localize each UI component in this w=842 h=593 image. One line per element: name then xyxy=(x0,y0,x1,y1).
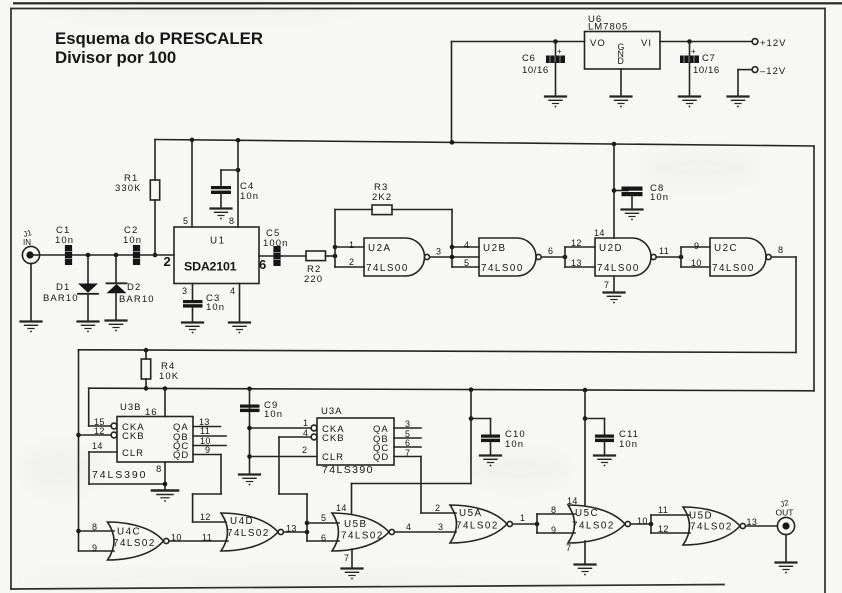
gate U2B 74LS00 NAND xyxy=(479,238,541,276)
svg-text:10n: 10n xyxy=(123,235,142,246)
wire +5V line lower section xyxy=(89,386,814,392)
svg-text:U4D: U4D xyxy=(230,516,254,527)
svg-text:QD: QD xyxy=(373,452,389,463)
capacitor C8 10n xyxy=(614,183,669,209)
svg-text:BAR10: BAR10 xyxy=(119,294,155,305)
wire input rail to U4C and CKB xyxy=(76,350,81,551)
svg-text:5: 5 xyxy=(464,258,469,268)
svg-text:U2B: U2B xyxy=(483,243,507,254)
svg-text:CLR: CLR xyxy=(122,448,144,459)
svg-text:10n: 10n xyxy=(619,439,638,450)
svg-text:74LS02: 74LS02 xyxy=(341,531,384,542)
wire VCC drop to U5C pin 14 xyxy=(583,390,588,505)
svg-text:4: 4 xyxy=(406,522,411,532)
counter U3B 74LS390 xyxy=(92,402,193,481)
wire U5A out to U5C xyxy=(512,513,539,533)
wire U5C out to U5D xyxy=(630,515,653,533)
wire U3B pin 8 GND xyxy=(163,462,168,490)
gate U5C 74LS02 NOR xyxy=(568,505,630,543)
svg-text:6: 6 xyxy=(321,533,326,543)
svg-text:BAR10: BAR10 xyxy=(43,293,79,304)
wire U3B QC stub pin 10 xyxy=(193,436,226,446)
svg-text:9: 9 xyxy=(92,543,97,553)
wire U4C pin 9 xyxy=(79,543,115,553)
wire U2A pin 1 xyxy=(335,240,364,250)
ground under U5C xyxy=(575,565,596,576)
svg-text:14: 14 xyxy=(594,228,605,238)
svg-text:4: 4 xyxy=(464,240,469,250)
svg-text:9: 9 xyxy=(205,445,210,455)
svg-text:2K2: 2K2 xyxy=(372,192,392,203)
svg-text:10n: 10n xyxy=(264,409,283,420)
ground under C6 xyxy=(545,97,566,108)
svg-text:U1: U1 xyxy=(210,236,226,247)
svg-text:10: 10 xyxy=(691,258,702,268)
svg-text:10K: 10K xyxy=(159,371,179,382)
wire U3A QD pin 7 to U5A xyxy=(394,448,456,513)
wire U5B pin 5 xyxy=(307,513,339,523)
svg-text:OUT: OUT xyxy=(776,508,794,518)
node U2A input xyxy=(333,210,338,268)
svg-text:3: 3 xyxy=(405,419,410,429)
ground under U2D xyxy=(604,293,625,304)
wire U1 pin 4 to ground xyxy=(230,284,240,323)
svg-text:3: 3 xyxy=(182,286,187,296)
svg-text:6: 6 xyxy=(405,438,410,448)
diode D1 BAR10 xyxy=(43,255,98,321)
ground under U5B xyxy=(342,569,363,580)
svg-text:12: 12 xyxy=(200,512,211,522)
svg-text:74LS02: 74LS02 xyxy=(456,521,499,532)
svg-text:3: 3 xyxy=(436,247,441,257)
svg-text:CKB: CKB xyxy=(122,431,145,442)
ground under D1 xyxy=(78,322,99,333)
svg-text:10: 10 xyxy=(637,516,648,526)
wire -12V to ground xyxy=(738,70,752,96)
svg-text:10n: 10n xyxy=(206,302,225,313)
svg-text:U2D: U2D xyxy=(599,243,623,254)
svg-text:2: 2 xyxy=(302,445,307,455)
wire U5B out to U5A pin 3 xyxy=(394,522,456,532)
svg-text:1: 1 xyxy=(520,513,525,523)
wire U2D pin 12 xyxy=(565,238,595,248)
svg-text:4: 4 xyxy=(230,286,235,296)
svg-text:10: 10 xyxy=(171,533,182,543)
svg-text:11: 11 xyxy=(658,505,668,515)
ground under D2 xyxy=(106,321,127,332)
wire bus right side down to counter supply xyxy=(813,146,815,391)
connector J1 IN xyxy=(22,228,39,264)
wire U2B pin 4 xyxy=(452,240,479,250)
svg-text:U2C: U2C xyxy=(714,243,738,254)
svg-text:+: + xyxy=(557,47,562,56)
U6 GND pin wire xyxy=(620,69,622,96)
wire U3A CKA pin 1 xyxy=(250,418,312,428)
resistor R3 2K2 feedback xyxy=(335,182,452,267)
svg-text:14: 14 xyxy=(92,441,103,451)
svg-text:LM7805: LM7805 xyxy=(588,22,628,33)
connector J2 OUT xyxy=(776,498,795,535)
svg-text:U3A: U3A xyxy=(321,406,342,417)
wire J1 ground xyxy=(30,264,32,321)
wire U3B QA stub pin 13 xyxy=(193,417,221,427)
svg-text:U5C: U5C xyxy=(575,508,599,519)
svg-text:9: 9 xyxy=(694,241,699,251)
wire U2D out to U2C xyxy=(656,246,683,267)
wire U3A QA stub pin 3 xyxy=(394,419,421,429)
wire U3B QB stub pin 11 xyxy=(193,426,226,436)
wire U5B pin 6 xyxy=(307,533,339,543)
wire U3B CKB pin 12 xyxy=(79,426,112,436)
ground under C7 xyxy=(679,97,700,108)
svg-text:IN: IN xyxy=(23,238,31,247)
svg-text:+: + xyxy=(691,47,696,56)
svg-text:74LS02: 74LS02 xyxy=(227,528,270,539)
wire U3A QB stub pin 5 xyxy=(394,429,421,439)
wire U3B CKA pin 15 xyxy=(89,388,111,427)
gate U5B 74LS02 NOR xyxy=(332,513,394,551)
wire U1 pin 5 to bus xyxy=(183,140,192,227)
svg-text:1: 1 xyxy=(303,418,308,428)
ground under C3 xyxy=(182,323,203,334)
svg-text:10/16: 10/16 xyxy=(522,65,549,76)
capacitor C1 10n xyxy=(55,225,74,265)
svg-text:2: 2 xyxy=(164,254,171,269)
wire VCC drop to U5B pin 14 xyxy=(352,390,474,513)
svg-text:220: 220 xyxy=(304,274,323,285)
ground under C11 xyxy=(594,456,615,467)
resistor R2 220 xyxy=(304,251,335,285)
svg-text:4: 4 xyxy=(303,428,308,438)
diode D2 BAR10 xyxy=(107,255,155,320)
wire U5C pin 8 xyxy=(537,505,575,515)
wire U2D pin 14 VCC xyxy=(594,144,616,238)
svg-text:10n: 10n xyxy=(505,439,524,450)
svg-text:10/16: 10/16 xyxy=(693,65,720,76)
svg-text:7: 7 xyxy=(344,553,349,563)
wire U4D out to U5B xyxy=(283,521,309,541)
wire VO output to +5V rail xyxy=(452,39,585,142)
wire U2C pin 8 out down to divider xyxy=(79,245,797,353)
wire U5D pin 12 xyxy=(651,524,690,534)
svg-text:74LS00: 74LS00 xyxy=(366,263,409,274)
terminal +12V xyxy=(752,38,786,49)
svg-text:QD: QD xyxy=(173,450,189,461)
ground under C9 xyxy=(239,475,260,486)
wire U3A CLR pin 2 xyxy=(250,445,317,457)
capacitor C5 100n xyxy=(263,228,289,266)
ground under U6 xyxy=(611,97,632,108)
svg-text:C7: C7 xyxy=(702,53,715,64)
gate U4C 74LS02 NOR xyxy=(108,522,169,560)
svg-text:2: 2 xyxy=(349,257,354,267)
wire U2B pin 5 xyxy=(452,258,479,268)
capacitor C10 10n xyxy=(471,419,526,456)
svg-text:8: 8 xyxy=(551,505,556,515)
wire U5C pin 14 label xyxy=(567,496,578,506)
svg-text:100n: 100n xyxy=(263,238,289,249)
svg-text:10n: 10n xyxy=(650,192,669,203)
wire U2D pin 7 GND xyxy=(604,276,614,292)
svg-text:11: 11 xyxy=(202,533,212,543)
gate U2C 74LS00 NAND xyxy=(710,238,771,276)
wire U5C pin 9 xyxy=(537,525,575,535)
capacitor C6 10/16 xyxy=(522,42,565,97)
ground under pin 4 xyxy=(229,323,250,334)
svg-text:CLR: CLR xyxy=(322,452,344,463)
ground under J1 xyxy=(21,322,42,333)
wire U4C pin 8 xyxy=(79,522,115,532)
wire U5B pin 7 GND xyxy=(344,549,352,568)
svg-text:U3B: U3B xyxy=(120,402,141,413)
svg-text:U2A: U2A xyxy=(368,243,392,254)
svg-text:13: 13 xyxy=(286,524,297,534)
svg-text:9: 9 xyxy=(551,525,556,535)
svg-text:7: 7 xyxy=(566,543,571,553)
gate U4D 74LS02 NOR xyxy=(200,512,283,551)
capacitor C11 10n xyxy=(585,419,639,456)
resistor R1 330K xyxy=(115,140,160,258)
ground under J2 xyxy=(776,563,797,574)
wire U3B CLR pin 14 xyxy=(89,441,165,484)
wire U3A QC stub pin 6 xyxy=(394,438,421,448)
svg-text:1: 1 xyxy=(349,240,354,250)
gate U2A 74LS00 NAND xyxy=(364,238,430,276)
svg-text:330K: 330K xyxy=(115,183,142,194)
svg-text:D2: D2 xyxy=(127,282,141,293)
capacitor C3 10n xyxy=(183,293,225,322)
svg-text:74LS00: 74LS00 xyxy=(481,263,524,274)
svg-text:13: 13 xyxy=(571,258,582,268)
svg-text:8: 8 xyxy=(156,464,162,475)
ground under C8 xyxy=(622,210,643,221)
terminal -12V xyxy=(752,66,786,77)
wire U5B pin 14 label xyxy=(336,503,347,513)
svg-text:C6: C6 xyxy=(522,53,535,64)
wire U2B out to U2D xyxy=(541,246,567,267)
svg-text:6: 6 xyxy=(548,246,553,256)
wire U5D pin 11 xyxy=(651,505,690,515)
wire U3B QD pin 9 to U4D xyxy=(193,445,226,522)
svg-text:U5B: U5B xyxy=(344,519,368,530)
regulator U6 LM7805 xyxy=(585,14,661,69)
svg-text:74LS02: 74LS02 xyxy=(113,538,156,549)
svg-text:Divisor por 100: Divisor por 100 xyxy=(55,48,176,67)
wire U3B pin 16 VCC xyxy=(164,389,166,417)
svg-text:3: 3 xyxy=(438,522,443,532)
capacitor C7 10/16 xyxy=(680,42,720,97)
wire U2A pin 2 xyxy=(335,257,364,267)
svg-text:Esquema do PRESCALER: Esquema do PRESCALER xyxy=(55,29,263,48)
svg-text:13: 13 xyxy=(747,517,758,527)
svg-text:74LS390: 74LS390 xyxy=(92,469,147,481)
ground under U3B xyxy=(152,491,178,502)
wire U2C pin 10 xyxy=(681,258,710,268)
wire U5C pin 7 GND xyxy=(566,541,585,564)
svg-text:14: 14 xyxy=(567,496,578,506)
wire U5D out to J2 xyxy=(745,517,777,527)
svg-text:D: D xyxy=(618,56,625,66)
gate U2D 74LS00 NAND xyxy=(595,238,656,276)
wire U2D pin 13 xyxy=(565,258,595,268)
wire U1 pin 8 to bus xyxy=(229,140,240,227)
svg-text:VO: VO xyxy=(590,38,606,49)
capacitor C4 10n xyxy=(211,170,259,208)
wire U5A pin 2 label xyxy=(435,503,440,513)
svg-text:U4C: U4C xyxy=(117,527,141,538)
svg-text:8: 8 xyxy=(92,522,97,532)
svg-text:11: 11 xyxy=(659,246,669,256)
svg-text:74LS00: 74LS00 xyxy=(712,263,755,274)
svg-text:+12V: +12V xyxy=(760,38,786,49)
svg-text:16: 16 xyxy=(145,407,158,418)
wire U2C pin 9 xyxy=(681,241,710,251)
counter U3A 74LS390 xyxy=(311,406,394,476)
svg-text:12: 12 xyxy=(94,426,105,436)
title text xyxy=(55,29,263,67)
ground under C4 xyxy=(211,209,232,220)
svg-text:10n: 10n xyxy=(240,191,259,202)
svg-text:7: 7 xyxy=(405,448,410,458)
svg-text:8: 8 xyxy=(778,245,783,255)
svg-text:74LS00: 74LS00 xyxy=(597,263,640,274)
svg-text:2: 2 xyxy=(435,503,440,513)
svg-text:74LS02: 74LS02 xyxy=(690,522,733,533)
svg-text:SDA2101: SDA2101 xyxy=(184,260,237,274)
svg-text:U5A: U5A xyxy=(459,508,483,519)
svg-text:D1: D1 xyxy=(56,282,70,293)
wire U3A CKB pin 4 xyxy=(279,428,311,523)
svg-text:12: 12 xyxy=(571,238,582,248)
scan edge line top xyxy=(13,2,842,4)
wire U4C out to U4D pin 11 xyxy=(169,533,228,543)
resistor R4 10K xyxy=(141,348,179,391)
wire U1 pin 3 xyxy=(182,284,193,301)
gate U5D 74LS02 NOR xyxy=(683,507,745,545)
wire VI input from +12V xyxy=(660,39,752,44)
wire J2 ground xyxy=(785,535,787,562)
svg-text:74LS390: 74LS390 xyxy=(322,464,374,476)
svg-text:5: 5 xyxy=(183,216,188,226)
capacitor C9 10n xyxy=(240,389,283,474)
svg-text:VI: VI xyxy=(641,38,652,49)
svg-text:74LS02: 74LS02 xyxy=(572,521,615,532)
svg-text:5: 5 xyxy=(321,513,326,523)
svg-text:10n: 10n xyxy=(55,235,74,246)
wire U2A out to U2B xyxy=(430,245,479,260)
wire U1 pin 6 to R2 xyxy=(259,255,306,257)
ground for -12V xyxy=(728,97,749,108)
wire input line J1 to U1 pin 2 xyxy=(40,253,174,258)
svg-text:14: 14 xyxy=(336,503,347,513)
svg-text:12: 12 xyxy=(658,524,669,534)
svg-text:CKB: CKB xyxy=(322,433,345,444)
ground under C10 xyxy=(480,456,501,467)
svg-text:8: 8 xyxy=(229,216,234,226)
svg-text:7: 7 xyxy=(604,280,609,290)
capacitor C2 10n xyxy=(123,225,142,265)
svg-text:11: 11 xyxy=(200,426,210,436)
svg-text:–12V: –12V xyxy=(760,66,786,77)
IC U1 SDA2101 xyxy=(164,227,267,284)
svg-text:U5D: U5D xyxy=(689,511,713,522)
wire +5V bus xyxy=(155,138,814,147)
gate U5A 74LS02 NOR xyxy=(450,505,512,543)
svg-text:6: 6 xyxy=(259,257,266,272)
